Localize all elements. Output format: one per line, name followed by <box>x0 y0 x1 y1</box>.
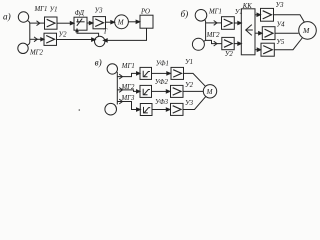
svg-text:У3: У3 <box>95 8 104 15</box>
svg-text:УФ1: УФ1 <box>156 60 169 67</box>
svg-text:У5: У5 <box>276 39 285 46</box>
svg-text:У1: У1 <box>50 7 58 14</box>
svg-text:У1: У1 <box>185 59 193 66</box>
svg-text:МГ1: МГ1 <box>121 63 135 70</box>
svg-text:ФД: ФД <box>75 10 85 17</box>
svg-text:М: М <box>302 26 310 35</box>
svg-text:У1: У1 <box>235 9 243 16</box>
svg-text:МГ2: МГ2 <box>121 84 136 91</box>
svg-text:МГ2: МГ2 <box>206 32 221 39</box>
svg-text:У2: У2 <box>185 82 194 89</box>
svg-text:М: М <box>206 88 214 96</box>
svg-text:а): а) <box>3 11 11 21</box>
svg-text:РО: РО <box>140 9 150 16</box>
svg-text:МГ3: МГ3 <box>121 95 136 102</box>
svg-text:У3: У3 <box>185 100 194 107</box>
svg-text:в): в) <box>95 57 102 67</box>
svg-text:У3: У3 <box>276 2 285 9</box>
svg-text:б): б) <box>181 9 189 19</box>
svg-text:УФ3: УФ3 <box>155 99 169 106</box>
svg-text:МГ1: МГ1 <box>208 9 222 16</box>
svg-text:УФ2: УФ2 <box>155 79 169 86</box>
svg-text:МГ1: МГ1 <box>34 6 48 13</box>
svg-text:У4: У4 <box>277 21 286 28</box>
svg-text:МГ2: МГ2 <box>29 49 44 56</box>
svg-text:М: М <box>117 18 125 26</box>
svg-text:КК: КК <box>242 3 253 10</box>
svg-text:У2: У2 <box>59 32 68 39</box>
svg-text:У2: У2 <box>225 51 234 58</box>
